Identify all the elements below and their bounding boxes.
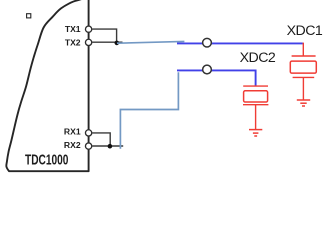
IC U1 TDC1000 outline: [6, 0, 88, 171]
transducer XDC1 pin stub: [302, 43, 304, 56]
wire TX annotation light blue: [117, 41, 184, 43]
transducer XDC1 ground lead: [302, 77, 304, 100]
svg-text:TX2: TX2: [65, 38, 81, 48]
wire RX2 black: [92, 145, 123, 147]
wire TX1 black: [92, 29, 116, 43]
pin-1 index square: [27, 14, 31, 18]
connector circle on XDC2 net: [203, 65, 212, 74]
svg-text:XDC2: XDC2: [240, 50, 276, 66]
transducer XDC1 bottom plate: [293, 76, 315, 78]
svg-text:XDC1: XDC1: [287, 23, 323, 39]
junction dot TX: [115, 41, 120, 46]
wire RX annotation light blue: [120, 72, 178, 149]
junction dot RX: [108, 144, 113, 149]
svg-text:RX1: RX1: [64, 127, 81, 137]
transducer XDC1 top plate: [292, 55, 316, 57]
wire net XDC1 blue: [177, 42, 303, 44]
pin circle RX1: [85, 130, 91, 136]
connector circle on XDC1 net: [203, 38, 212, 47]
transducer XDC1 body: [290, 61, 316, 73]
wire TX2 black: [92, 41, 122, 43]
pin circle RX2: [85, 143, 91, 149]
transducer XDC2 bottom plate: [243, 104, 268, 106]
wire RX1 black: [92, 133, 110, 146]
transducer XDC2 top plate: [243, 85, 268, 87]
ground XDC2: [249, 130, 262, 136]
svg-text:TX1: TX1: [65, 24, 81, 34]
wire net XDC2 blue: [177, 70, 256, 86]
pin circle TX1: [85, 26, 91, 32]
ground XDC1: [297, 100, 310, 106]
transducer XDC2 ground lead: [255, 105, 257, 130]
svg-text:RX2: RX2: [64, 140, 81, 150]
pin circle TX2: [85, 39, 91, 45]
transducer XDC2 body: [244, 91, 268, 102]
svg-text:TDC1000: TDC1000: [25, 152, 68, 168]
